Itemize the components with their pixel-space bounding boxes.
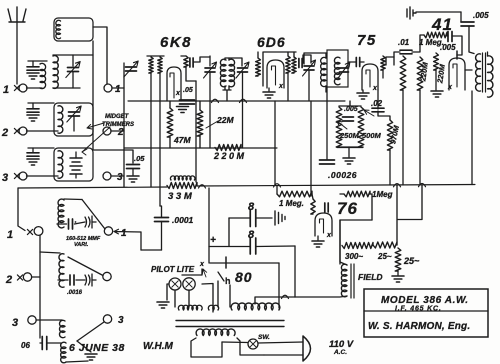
- wire 8 second leads: [209, 218, 295, 247]
- cathode resistor 6K8: [184, 56, 188, 67]
- svg-text:3: 3: [12, 317, 18, 329]
- output transformer secondary: [488, 56, 493, 97]
- band switch diagonal B1: [82, 200, 105, 230]
- svg-text:1: 1: [3, 84, 9, 96]
- label 22M: [216, 115, 234, 125]
- wire right circle 2 to bus: [111, 130, 124, 132]
- label FIELD: [358, 272, 383, 282]
- wire trimmer C1 bottom lead: [72, 72, 74, 88]
- diode load resistor 75: [381, 56, 385, 70]
- band switch diagonal B3: [77, 322, 104, 341]
- capacitor to ground row 3: [27, 148, 54, 165]
- wire 6D6 top box: [258, 52, 296, 86]
- svg-text:25~: 25~: [377, 252, 392, 261]
- antenna symbol: [8, 7, 26, 22]
- svg-text:MODEL 386 A.W.: MODEL 386 A.W.: [381, 295, 469, 306]
- svg-text:.05: .05: [134, 154, 145, 163]
- label MODEL 386 A.W.: [381, 295, 469, 306]
- terminal B3 right circle: [103, 315, 111, 323]
- oscillator coil B2: [59, 254, 64, 288]
- label 1 Meg.: [419, 38, 444, 47]
- volume control 250M resistor: [336, 107, 342, 147]
- svg-text:.0016: .0016: [67, 290, 83, 296]
- resistor 22M: [197, 110, 203, 136]
- svg-text:500M: 500M: [362, 131, 382, 140]
- resistor 970M: [387, 120, 392, 150]
- wire divider ground stem: [348, 147, 350, 157]
- terminal 2 X: [14, 128, 19, 133]
- wire 6D6 resistor tops: [288, 52, 294, 57]
- wire top rail corner down: [460, 12, 462, 22]
- label 300 ohm: [345, 252, 363, 261]
- label W.H.M: [143, 341, 173, 352]
- junction bump rail 277: [274, 184, 281, 187]
- filter capacitor 8 first: [250, 210, 256, 227]
- padder capacitor B2 b: [85, 274, 92, 286]
- output transformer primary: [476, 54, 481, 91]
- pilot lamp 2: [183, 278, 195, 290]
- wire 41 grid leak down: [435, 70, 437, 90]
- wire B+ right vertical: [294, 246, 296, 297]
- trimmer capacitor IF1 primary: [204, 62, 217, 78]
- chassis symbol 8 first: [275, 211, 285, 225]
- x mark 6D6: [278, 83, 284, 90]
- label 25 ohm horizontal: [377, 252, 392, 261]
- x mark 76: [326, 232, 332, 239]
- bus AVC rail y148 right: [337, 147, 363, 149]
- oscillator coil B3a: [59, 320, 65, 337]
- terminal B2 label 2: [5, 274, 12, 286]
- wire right circle 1 to grid bus: [112, 87, 124, 89]
- wire bias box: [340, 185, 422, 264]
- svg-text:.0001: .0001: [172, 215, 194, 225]
- label I.F. 465 KC.: [395, 306, 442, 313]
- wire right circle 3 to bus: [111, 175, 124, 177]
- svg-text:3: 3: [118, 315, 124, 326]
- oscillator winding B: [158, 57, 162, 73]
- switch circle: [248, 339, 258, 349]
- wire switch step vertical: [140, 232, 142, 250]
- label 970M: [388, 124, 401, 145]
- label 6 JUNE 38: [69, 342, 125, 354]
- label .05 mid: [134, 154, 145, 163]
- label 1 right: [115, 84, 121, 95]
- padder capacitor stack row 3: [70, 152, 82, 178]
- bus cathode rail y100: [128, 100, 345, 102]
- wire field bottom to B+: [295, 296, 347, 297]
- power transformer HV winding: [231, 303, 280, 310]
- svg-text:6 JUNE 38: 6 JUNE 38: [69, 342, 125, 354]
- capacitor .02: [371, 99, 384, 112]
- terminal B1 label 1: [7, 229, 13, 241]
- output transformer core: [483, 53, 486, 92]
- trimmer capacitor IF2 primary: [303, 60, 316, 76]
- capacitor .05 mid: [127, 165, 140, 169]
- wire to oscillator switch arrow: [114, 229, 141, 234]
- svg-text:76: 76: [337, 199, 358, 218]
- tube 76 envelope: [315, 213, 332, 236]
- rectifier 80 plate bar: [225, 257, 227, 268]
- bus B- rail right: [197, 185, 475, 187]
- svg-text:.00026: .00026: [328, 170, 357, 180]
- capacitor to ground row 1: [27, 61, 47, 79]
- tube 75 envelope: [362, 64, 378, 90]
- label .0001: [172, 215, 194, 225]
- wire plug top prong: [258, 342, 303, 343]
- wire 6D6 resistors down: [287, 73, 289, 101]
- x mark 41: [447, 84, 453, 91]
- capacitor .005 plate-to-ground: [461, 22, 474, 26]
- wire B+ vertical from rail: [208, 188, 210, 263]
- trimmer capacitor C2 row 2: [67, 106, 81, 122]
- capacitor 6D6 screen bypass: [299, 59, 302, 68]
- svg-text:75: 75: [357, 32, 377, 49]
- label tube 6D6: [257, 34, 286, 50]
- wire 80 filament leads: [218, 281, 230, 307]
- ground under 41: [431, 91, 443, 97]
- ground under 75: [357, 90, 369, 99]
- field coil core: [351, 264, 354, 298]
- bus AVC rail y148: [124, 147, 277, 149]
- label .005 top right: [473, 11, 489, 20]
- wire IF1 coil bottoms: [223, 86, 231, 101]
- tube 41 envelope: [449, 58, 465, 90]
- resistor 25 ohm horizontal: [373, 242, 397, 248]
- wire IF1 varcap bottom: [209, 72, 211, 148]
- terminal B1 circle: [34, 227, 43, 236]
- svg-text:1: 1: [121, 228, 127, 239]
- svg-text:3: 3: [2, 172, 8, 184]
- terminal B1 X: [27, 229, 32, 234]
- wire x311 from bus: [310, 101, 312, 196]
- ground under 6K8: [177, 107, 189, 113]
- label 220M first: [418, 61, 430, 83]
- wire diode plate down: [377, 90, 379, 109]
- label VARI.: [74, 242, 89, 248]
- wire coil B1 top: [64, 198, 82, 201]
- antenna coil T1 secondary: [53, 56, 58, 89]
- svg-text:MIDGET: MIDGET: [105, 114, 130, 120]
- label 500M: [362, 131, 382, 140]
- IF1 primary coil: [220, 59, 226, 87]
- title box: [364, 289, 488, 337]
- wire 220M second down: [419, 90, 421, 185]
- resistor 220M second: [417, 57, 423, 90]
- oscillator coil B3b: [61, 342, 66, 363]
- wire coil B3b bottom: [66, 361, 88, 362]
- oscillator coil B1: [58, 199, 64, 228]
- wire transformer secondary top lead: [487, 52, 489, 56]
- svg-text:.005: .005: [344, 106, 358, 113]
- ground under 6D6: [263, 88, 275, 98]
- antenna coil T1 primary: [40, 63, 46, 88]
- wire .01 leads: [394, 35, 424, 57]
- terminal 2 left label: [1, 127, 8, 139]
- power transformer primary winding: [196, 329, 235, 336]
- svg-text:PILOT LITE: PILOT LITE: [151, 265, 195, 274]
- resistor 1 Meg (41 grid): [424, 32, 447, 38]
- wire cap to transformer top: [469, 26, 474, 54]
- wire 75 diode lead: [382, 70, 384, 78]
- capacitor .01: [398, 38, 412, 54]
- wire 75 plate hook: [386, 57, 394, 65]
- wire 6D6 plate hook: [303, 55, 311, 63]
- wire plug bottom prong: [264, 354, 303, 356]
- wire 220M first down: [402, 90, 404, 185]
- wire .02 down lead: [378, 111, 390, 120]
- tube 6K8 envelope: [167, 67, 181, 101]
- trimmer capacitor C1 row 1: [66, 62, 80, 78]
- coil box row 3: [54, 148, 93, 181]
- junction bump rail 422: [419, 183, 426, 186]
- capacitor .06: [40, 337, 61, 350]
- junction bump bus 215: [212, 99, 219, 102]
- rectifier 80 plate diagonal: [218, 272, 224, 281]
- power transformer rectifier winding: [208, 305, 218, 310]
- svg-text:6D6: 6D6: [257, 34, 286, 50]
- terminal 1 circle: [19, 84, 27, 92]
- coil T3 winding: [58, 151, 63, 178]
- screen resistor 6D6: [286, 56, 290, 73]
- svg-text:W. S. HARMON, Eng.: W. S. HARMON, Eng.: [368, 321, 470, 332]
- label 220M horizontal: [213, 151, 245, 161]
- IF1 secondary coil: [229, 59, 235, 87]
- label tube 41: [431, 15, 453, 34]
- resistor 25 ohm vertical: [395, 248, 401, 271]
- grid capacitor 75: [348, 58, 364, 67]
- capacitor .005 between dividers: [343, 117, 354, 121]
- label .005 coupling: [440, 43, 456, 52]
- wire 1Meg to .005: [447, 36, 462, 55]
- label SW.: [258, 334, 270, 341]
- svg-text:250M: 250M: [339, 131, 360, 140]
- wire IF2 secondary down: [326, 87, 328, 159]
- label 3 right: [117, 172, 123, 183]
- label .0016: [67, 290, 83, 296]
- wire trimmer C2 bottom: [73, 116, 75, 131]
- field coil winding: [341, 264, 347, 297]
- x mark 75: [372, 85, 378, 92]
- wire 970M down: [389, 150, 391, 185]
- IF2 secondary coil: [334, 57, 340, 85]
- svg-text:A.C.: A.C.: [333, 349, 347, 356]
- wire divider bottom join: [339, 146, 363, 148]
- terminal 3 X: [14, 173, 19, 178]
- wire rail corner down to B1: [18, 188, 25, 231]
- oscillator coil winding L1: [56, 20, 61, 38]
- svg-text:.01: .01: [398, 38, 410, 47]
- wire terminal B2 to bus: [32, 276, 41, 278]
- label 1 Meg. first: [279, 199, 304, 208]
- grid bus vertical to 6K8: [123, 63, 125, 187]
- wire osc box bottom to .05: [93, 150, 133, 163]
- trimmer capacitor IF1 secondary: [236, 62, 249, 78]
- wire 41 plate to transformer: [465, 69, 472, 71]
- wire IF1 varcap top lead: [209, 56, 211, 66]
- wire 22M leads: [199, 101, 201, 148]
- plate resistor 6D6: [292, 57, 296, 73]
- ground pilot: [157, 302, 169, 308]
- top rail wire: [416, 11, 461, 13]
- svg-text:+: +: [210, 235, 216, 246]
- ground under 25 ohm: [392, 276, 404, 282]
- label W. S. HARMON Eng: [368, 321, 470, 332]
- wire osc windings top: [147, 55, 164, 57]
- terminal B2 X: [17, 275, 22, 280]
- svg-text:47M: 47M: [173, 135, 191, 145]
- svg-text:1: 1: [7, 229, 13, 241]
- wire T1 secondary top: [53, 54, 93, 56]
- svg-text:FIELD: FIELD: [358, 272, 383, 282]
- bus group B vertical: [39, 235, 41, 338]
- label 110 V: [329, 339, 354, 350]
- wire osc winding B down: [159, 73, 161, 206]
- oscillator coil box: [54, 18, 93, 41]
- resistor 33M: [167, 183, 197, 189]
- label PILOT LITE: [151, 265, 195, 274]
- pointer 22M: [206, 121, 218, 128]
- svg-text:.005: .005: [473, 11, 489, 20]
- resistor 500M: [358, 107, 364, 147]
- resistor 1Meg second: [344, 191, 370, 197]
- junction bump bus 243: [240, 99, 247, 102]
- wire padder B2 leads: [58, 279, 96, 281]
- label tube 80: [235, 269, 253, 285]
- resistor 47M: [167, 108, 173, 137]
- ground under .05 mid: [127, 169, 139, 183]
- ground row B3: [85, 354, 97, 360]
- wire osc plate vertical: [195, 81, 197, 182]
- wire terminal 1 to coil T1: [27, 87, 43, 89]
- svg-text:8: 8: [248, 201, 255, 213]
- svg-text:2: 2: [117, 127, 124, 138]
- svg-text:TRIMMERS: TRIMMERS: [102, 122, 134, 128]
- svg-text:2 2 0 M: 2 2 0 M: [213, 151, 245, 161]
- label A.C.: [333, 349, 347, 356]
- grid cap 41: [456, 51, 458, 59]
- pilot lamp 1: [169, 278, 181, 290]
- terminal 1 left label: [3, 84, 9, 96]
- trimmer capacitor IF2 secondary: [338, 62, 350, 78]
- terminal B3 label 3: [12, 317, 18, 329]
- capacitor .05 under 6K8: [180, 100, 195, 104]
- wire osc winding A down: [150, 73, 152, 187]
- terminal 1 (antenna) X: [14, 85, 19, 90]
- wire terminal 2 to coil: [27, 130, 59, 132]
- svg-text:2: 2: [1, 127, 8, 139]
- filter capacitor 8 second: [250, 238, 256, 254]
- svg-text:W.H.M: W.H.M: [143, 341, 173, 352]
- IF1 coupling top: [225, 58, 229, 60]
- svg-text:.005: .005: [440, 43, 456, 52]
- wire row 1 bottom: [53, 87, 80, 89]
- svg-text:300~: 300~: [345, 252, 363, 261]
- svg-text:6K8: 6K8: [160, 34, 192, 51]
- resistor 220M horizontal: [215, 145, 241, 151]
- wire pilot left down: [167, 284, 169, 300]
- wire 80 plate line: [210, 262, 279, 264]
- x mark pilot: [199, 261, 205, 268]
- wire .0001 bottom network: [161, 222, 163, 251]
- wire bus to coil B2: [40, 252, 60, 253]
- tube 6D6 envelope: [267, 60, 284, 88]
- svg-text:.02: .02: [371, 99, 383, 108]
- pointer arrow to trimmer row 2: [87, 123, 104, 129]
- wire pilot lamps down: [175, 284, 213, 313]
- band switch diagonal B2: [68, 257, 103, 276]
- bus B- rail left: [18, 187, 167, 188]
- svg-text:.05: .05: [183, 87, 193, 94]
- label .05 (6K8 cathode cap): [183, 87, 193, 94]
- svg-text:8: 8: [248, 229, 255, 241]
- AC plug body: [303, 336, 311, 361]
- wire field coil top: [340, 220, 347, 265]
- power transformer filament winding: [178, 305, 202, 310]
- svg-text:3: 3: [117, 172, 123, 183]
- padder capacitor B1 a: [69, 219, 77, 229]
- tuning capacitor C4 (6K8 grid): [124, 61, 138, 77]
- wire .0001 top lead: [160, 206, 162, 218]
- resistor 6D6 grid: [256, 58, 261, 76]
- wire divider top join: [339, 101, 361, 106]
- svg-text:3 3 M: 3 3 M: [168, 191, 193, 202]
- oscillator coil scallops: [170, 176, 194, 180]
- capacitor .0001: [155, 218, 169, 222]
- terminal 3 circle: [19, 172, 27, 180]
- svg-text:41: 41: [431, 15, 453, 34]
- x mark 6K8: [175, 90, 181, 97]
- svg-text:1Meg: 1Meg: [372, 190, 393, 199]
- resistor 41 grid leak: [434, 53, 439, 70]
- wire IF2 primary leads: [325, 53, 327, 92]
- label plus mark: [210, 235, 216, 246]
- top rail ground capacitor: [407, 7, 416, 19]
- label 1Meg second: [372, 190, 393, 199]
- resistor 220M first: [400, 56, 406, 90]
- wire 1Meg first left lead: [276, 186, 278, 194]
- label MIDGET TRIMMERS: [102, 114, 134, 128]
- wire 25 ohm ground stem: [397, 271, 399, 275]
- label 2 right: [117, 127, 124, 138]
- wire pilot top: [182, 269, 202, 275]
- svg-text:25~: 25~: [403, 256, 420, 266]
- wire right plate bus down: [471, 91, 473, 185]
- label .00026: [328, 170, 357, 180]
- capacitor to ground row 2: [27, 103, 54, 121]
- label 3 right of B3: [118, 315, 124, 326]
- wire primary left lead: [191, 338, 222, 357]
- wire switch step horizontal: [141, 249, 162, 251]
- terminal 3 left label: [2, 172, 8, 184]
- label 8 second: [248, 229, 255, 241]
- terminal B1 right circle: [104, 227, 112, 235]
- ground under 76: [312, 236, 324, 247]
- wire junction 1Meg: [312, 194, 313, 199]
- arrow pilot: [202, 269, 206, 277]
- wire 6K8 cathode top: [181, 56, 196, 81]
- terminal 3 right circle: [103, 172, 111, 180]
- wire terminal 3 to coil: [27, 175, 59, 177]
- label 8 first: [248, 201, 255, 213]
- padder capacitor B1 b: [85, 216, 92, 228]
- wire 6K8 top rail: [194, 57, 210, 62]
- terminal B2 circle: [23, 273, 31, 281]
- svg-text:SW.: SW.: [258, 334, 270, 341]
- label .005 divider: [344, 106, 358, 113]
- IF2 primary coil: [321, 57, 326, 86]
- terminal B2 right circle: [103, 272, 111, 280]
- label 250M: [339, 131, 360, 140]
